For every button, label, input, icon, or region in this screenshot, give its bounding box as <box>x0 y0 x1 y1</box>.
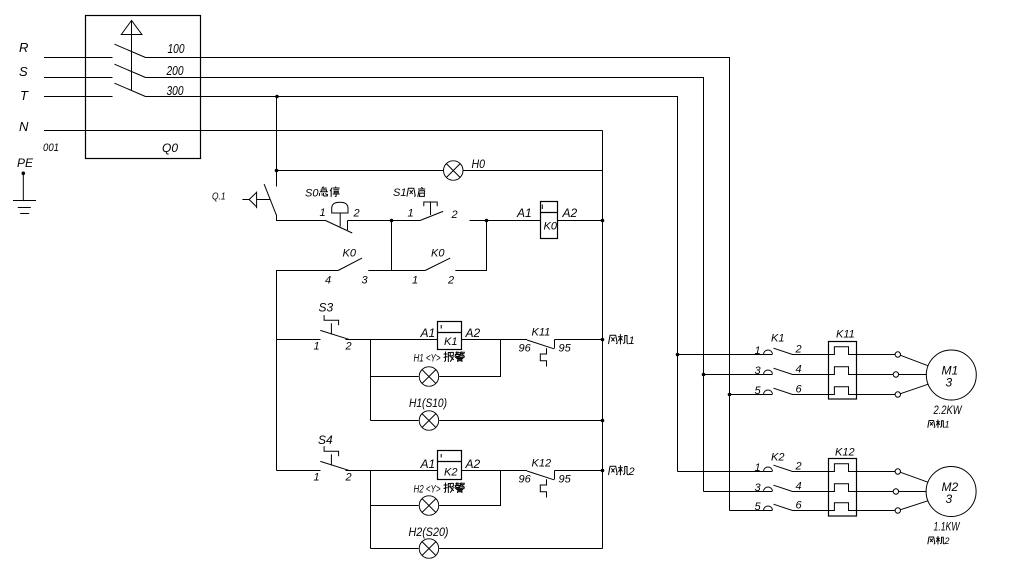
svg-text:K12: K12 <box>835 447 855 459</box>
K12 heater element 1 <box>829 464 857 472</box>
relay coil K0 <box>541 202 558 239</box>
node H0 branch <box>275 169 279 173</box>
wire control left rail upper <box>276 97 278 187</box>
wire row2 left corner and left rail <box>277 271 339 471</box>
K12 right contact tick <box>554 471 556 480</box>
svg-text:1: 1 <box>314 472 320 484</box>
svg-text:3: 3 <box>755 365 762 377</box>
svg-text:S0: S0 <box>305 188 319 200</box>
S3 NO blade <box>320 330 350 339</box>
wire terminals to motor M2 <box>899 472 929 509</box>
svg-text:4: 4 <box>796 364 802 376</box>
svg-text:1: 1 <box>755 345 761 357</box>
S4 NO blade <box>320 461 350 470</box>
svg-text:1: 1 <box>755 462 761 474</box>
svg-text:5: 5 <box>755 385 762 397</box>
Q0 pole S blade <box>115 64 146 77</box>
contact K0 1-2 blade <box>425 258 450 270</box>
wire row1 tap down <box>391 221 393 271</box>
label H1(Y) alarm <box>414 352 465 365</box>
svg-text:Q.1: Q.1 <box>212 192 226 203</box>
svg-text:R: R <box>19 40 28 55</box>
lamp H0 wire left <box>277 170 444 172</box>
svg-text:100: 100 <box>168 41 186 56</box>
svg-text:3: 3 <box>946 492 953 506</box>
svg-text:S4: S4 <box>318 433 333 447</box>
svg-text:2: 2 <box>944 536 950 546</box>
wire H2S20 row right to N rail end <box>439 548 602 550</box>
contactor K1 pole 5-6 <box>730 384 829 398</box>
node row1 holdout tap <box>485 219 489 223</box>
contact K11 NC blade <box>527 340 554 349</box>
ground <box>13 173 36 213</box>
svg-text:3: 3 <box>362 275 369 287</box>
svg-text:6: 6 <box>796 500 803 512</box>
pushbutton S1 actuator <box>424 202 437 215</box>
wire H2Y row left <box>371 505 419 507</box>
breaker Q.1 blade <box>264 184 276 215</box>
node phase R at K1 pole3 <box>728 393 732 397</box>
svg-text:A1: A1 <box>516 206 532 220</box>
wire row2 right, up to row1 <box>455 221 486 271</box>
wire phase R corner to K2 pole3 <box>730 510 773 512</box>
wire H1 branch vertical <box>370 340 372 421</box>
svg-text:3: 3 <box>755 482 762 494</box>
wire H2S20 row left <box>371 548 419 550</box>
svg-text:96: 96 <box>519 343 532 355</box>
lamp H1(S10) <box>419 411 439 431</box>
contactor K2 pole 5-6 <box>755 500 829 514</box>
svg-text:3: 3 <box>946 376 953 390</box>
wire S3 to K1 coil <box>346 339 438 341</box>
overload relay K12 box <box>829 459 857 517</box>
wire row3 left <box>277 339 321 341</box>
node row5 at N rail <box>601 419 605 423</box>
breaker Q.1 arrow <box>242 192 270 209</box>
svg-text:1: 1 <box>320 207 326 219</box>
wire Q.1 to row1 <box>277 215 326 221</box>
label S1 (start) <box>393 187 425 199</box>
svg-text:95: 95 <box>559 474 572 486</box>
wire 200 output to right <box>146 78 704 492</box>
node T-line control tap <box>275 95 279 99</box>
svg-text:K0: K0 <box>431 248 445 260</box>
Q0 operating linkage arrow <box>121 21 142 91</box>
svg-text:4: 4 <box>325 275 331 287</box>
wire S4 to K2 coil <box>346 470 438 472</box>
terminal U1 <box>895 352 900 357</box>
node phase T at K1 pole1 <box>676 353 680 357</box>
label fan2 under M2 <box>928 536 950 546</box>
svg-text:2: 2 <box>345 341 352 353</box>
label S0 (emergency stop) <box>305 187 339 200</box>
S0 NC blade <box>326 221 353 234</box>
wire H1S10 row right to N rail <box>439 420 602 422</box>
circuit breaker Q0 enclosure <box>86 16 201 159</box>
net label fan2 <box>609 466 635 478</box>
terminal U2 <box>895 469 900 474</box>
pushbutton S0 mushroom head <box>332 202 348 226</box>
svg-text:001: 001 <box>43 142 59 154</box>
K11 thermal element <box>540 348 546 366</box>
relay coil K2 <box>438 451 462 480</box>
K11 heater element 2 <box>829 367 857 375</box>
wire H2Y row right, up to row6 <box>439 471 500 506</box>
svg-text:2: 2 <box>795 461 802 473</box>
wire R input <box>44 57 113 59</box>
svg-text:N: N <box>19 119 29 134</box>
lamp H0 wire right <box>464 170 603 172</box>
wire H1Y row left <box>371 376 419 378</box>
svg-text:K2: K2 <box>771 452 784 464</box>
K12 thermal element <box>540 479 546 497</box>
node row6 at N rail <box>601 469 605 473</box>
wire K11 to terminals M1 <box>857 355 896 395</box>
svg-text:200: 200 <box>166 63 184 78</box>
wire N rail right vertical <box>602 131 604 549</box>
svg-text:S3: S3 <box>319 301 334 315</box>
contact K0 4-3 blade <box>338 258 362 270</box>
K11 heater element 1 <box>829 347 857 355</box>
svg-text:2: 2 <box>795 344 802 356</box>
svg-text:K0: K0 <box>343 248 357 260</box>
lamp H0 <box>443 161 463 181</box>
svg-text:Q0: Q0 <box>162 141 178 155</box>
svg-text:4: 4 <box>796 481 802 493</box>
K11 heater element 3 <box>829 387 857 395</box>
svg-text:K0: K0 <box>544 221 558 233</box>
node A2 at N rail <box>601 219 605 223</box>
wire phase T corner to K2 pole1 <box>678 471 773 473</box>
svg-text:A2: A2 <box>465 326 481 340</box>
wire K2 to K12 contact <box>462 470 528 472</box>
node row3 at N rail <box>601 338 605 342</box>
svg-text:A1: A1 <box>420 457 436 471</box>
wire S1 to K0 coil <box>470 220 541 222</box>
wire 100 output to right <box>146 58 730 511</box>
motor M1 <box>926 350 976 400</box>
contactor K1 pole 1-2 <box>678 344 829 358</box>
svg-text:K2: K2 <box>444 467 457 479</box>
svg-text:A2: A2 <box>465 457 481 471</box>
S0 right contact tick <box>347 221 349 231</box>
wire 300 output to right <box>146 97 678 472</box>
Q0 pole T blade <box>115 83 146 96</box>
svg-text:T: T <box>20 88 29 103</box>
pushbutton S3 actuator <box>324 315 339 334</box>
contactor K1 pole 3-4 <box>704 364 829 378</box>
svg-text:A2: A2 <box>562 206 578 220</box>
wire S0 to S1 <box>348 220 421 222</box>
svg-text:2: 2 <box>451 209 458 221</box>
K11 right contact tick <box>554 340 556 349</box>
svg-text:S: S <box>19 64 28 79</box>
wire S input <box>44 77 113 79</box>
terminal V1 <box>893 372 898 377</box>
overload relay K11 box <box>829 342 857 400</box>
wire phase S corner to K2 pole2 <box>704 491 773 493</box>
svg-text:A1: A1 <box>420 326 436 340</box>
svg-text:1.1KW: 1.1KW <box>934 520 961 534</box>
label H2(Y) alarm <box>414 483 465 496</box>
svg-text:2: 2 <box>345 472 352 484</box>
wire K12 to N rail <box>555 470 603 472</box>
terminal V2 <box>893 489 898 494</box>
PE terminal dot <box>22 172 26 176</box>
contactor K2 pole 3-4 <box>755 481 829 495</box>
wire K11 to N rail <box>555 339 603 341</box>
svg-text:H2 <Y>: H2 <Y> <box>414 484 441 496</box>
svg-text:K12: K12 <box>532 458 552 470</box>
contact K12 NC blade <box>527 471 554 480</box>
svg-text:300: 300 <box>167 83 185 98</box>
svg-text:1: 1 <box>945 420 950 430</box>
label fan1 under M1 <box>928 420 950 430</box>
S1 NO blade <box>420 211 443 220</box>
terminal W2 <box>895 508 900 513</box>
svg-text:K1: K1 <box>444 336 457 348</box>
svg-text:1: 1 <box>629 335 635 347</box>
svg-text:96: 96 <box>519 474 532 486</box>
svg-text:5: 5 <box>755 501 762 513</box>
wire row6 left <box>277 470 321 472</box>
svg-text:K11: K11 <box>836 329 855 341</box>
K12 heater element 2 <box>829 484 857 492</box>
contactor K2 pole 1-2 <box>755 461 829 475</box>
svg-text:K1: K1 <box>771 333 784 345</box>
svg-text:H1(S10): H1(S10) <box>409 396 447 410</box>
wire terminals to motor M1 <box>899 355 929 393</box>
svg-text:H2(S20): H2(S20) <box>409 525 449 539</box>
wire H1Y row right, up to row3 <box>439 340 500 377</box>
svg-text:2: 2 <box>628 466 635 478</box>
svg-text:2: 2 <box>447 275 454 287</box>
relay coil K1 <box>438 322 462 350</box>
svg-text:1: 1 <box>408 208 414 220</box>
wire row2 mid <box>368 270 425 272</box>
svg-text:K11: K11 <box>532 327 551 339</box>
motor M2 <box>926 467 976 517</box>
Q0 pole R blade <box>115 44 146 57</box>
svg-text:6: 6 <box>796 384 803 396</box>
node row1 self-hold tap <box>390 219 394 223</box>
svg-text:1: 1 <box>412 275 418 287</box>
svg-text:2: 2 <box>353 208 360 220</box>
terminal W1 <box>895 392 900 397</box>
pushbutton S4 actuator <box>324 446 339 465</box>
svg-text:PE: PE <box>17 156 34 170</box>
svg-text:2.2KW: 2.2KW <box>933 403 963 417</box>
lamp H1(Y) <box>419 367 439 387</box>
wire K12 to terminals M2 <box>857 472 896 511</box>
svg-text:H0: H0 <box>472 157 486 171</box>
wire H2 branch vertical <box>370 471 372 549</box>
wire K0 to N rail <box>558 220 603 222</box>
svg-text:95: 95 <box>559 343 572 355</box>
K12 heater element 3 <box>829 503 857 511</box>
node phase S at K1 pole2 <box>702 373 706 377</box>
wire T input <box>44 96 113 98</box>
wire N through <box>44 130 603 132</box>
lamp H2(S20) <box>419 539 439 559</box>
wire H1S10 row left <box>371 420 419 422</box>
svg-text:H1 <Y>: H1 <Y> <box>414 353 441 365</box>
net label fan1 <box>609 335 635 347</box>
svg-text:S1: S1 <box>393 187 406 199</box>
wire K1 to K11 contact <box>462 339 528 341</box>
lamp H2(Y) <box>419 496 439 516</box>
svg-text:1: 1 <box>314 341 320 353</box>
